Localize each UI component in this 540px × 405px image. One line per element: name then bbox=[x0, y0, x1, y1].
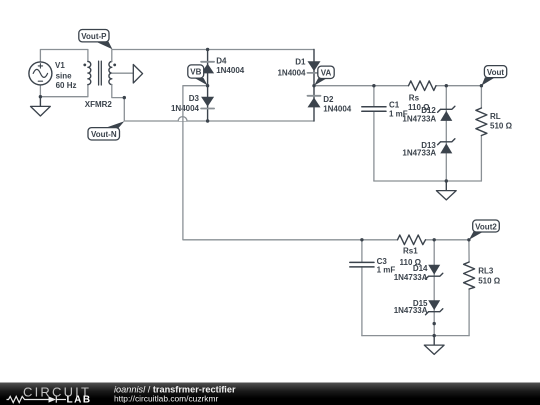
wire V1 bottom loop bbox=[40, 85, 88, 97]
svg-text:Rs1: Rs1 bbox=[403, 246, 418, 255]
tag Vout-N bbox=[88, 121, 124, 140]
node junction VA bbox=[312, 84, 315, 87]
label D2 / 1N4004 bbox=[323, 95, 352, 114]
node dot secondary bottom corner bbox=[123, 96, 126, 99]
label RL3 / 510 Ω bbox=[478, 266, 501, 285]
diode D3 1N4004 bbox=[201, 86, 214, 121]
diode D2 1N4004 bbox=[308, 86, 321, 121]
label D15 / 1N4733A bbox=[394, 299, 428, 315]
node junction Vout2 corner bbox=[467, 238, 470, 241]
transformer XFMR2 bbox=[83, 61, 116, 85]
node junction D12 top bbox=[445, 84, 448, 87]
node junction ground rail 1 bbox=[445, 179, 448, 182]
svg-text:RL3: RL3 bbox=[478, 266, 494, 275]
node junction V1-ground bbox=[39, 95, 42, 98]
label RL / 510 Ω bbox=[490, 112, 513, 131]
svg-text:1N4733A: 1N4733A bbox=[402, 149, 436, 158]
resistor RL3 bbox=[464, 240, 475, 336]
secondary dot bbox=[113, 64, 116, 67]
label Rs1 / 110 Ω bbox=[400, 246, 422, 267]
node junction VB bbox=[206, 84, 209, 87]
diode D1 1N4004 bbox=[308, 50, 321, 86]
label D3 / 1N4004 bbox=[171, 94, 200, 113]
svg-text:VB: VB bbox=[190, 68, 201, 77]
svg-text:1N4004: 1N4004 bbox=[323, 104, 352, 113]
svg-text:60 Hz: 60 Hz bbox=[56, 81, 77, 90]
svg-text:VA: VA bbox=[321, 69, 332, 78]
svg-text:1N4733A: 1N4733A bbox=[394, 273, 428, 282]
wire VA rail to Vout bbox=[314, 85, 481, 87]
svg-text:RL: RL bbox=[490, 112, 501, 121]
label D12 / 1N4733A bbox=[402, 106, 436, 123]
voltage source V1 bbox=[29, 62, 52, 85]
zener diode D12 1N4733A bbox=[438, 106, 455, 121]
primary dot bbox=[83, 64, 86, 67]
core bbox=[99, 61, 102, 85]
wire hop over VB vertical bbox=[178, 117, 187, 121]
svg-text:Vout-P: Vout-P bbox=[81, 32, 107, 41]
svg-text:Vout: Vout bbox=[487, 68, 505, 77]
svg-text:sine: sine bbox=[56, 71, 73, 80]
svg-text:D14: D14 bbox=[413, 264, 428, 273]
zener diode D13 1N4733A bbox=[438, 139, 455, 154]
zener diode D15 1N4733A bbox=[426, 300, 443, 314]
svg-text:1N4733A: 1N4733A bbox=[402, 114, 436, 123]
tag Vout-P bbox=[79, 30, 113, 50]
value label V1 sine 60 Hz bbox=[55, 61, 77, 90]
svg-text:1N4004: 1N4004 bbox=[216, 66, 245, 75]
svg-text:510 Ω: 510 Ω bbox=[478, 276, 501, 285]
capacitor C3 bbox=[350, 240, 374, 336]
svg-text:Vout-N: Vout-N bbox=[91, 130, 117, 139]
label Rs / 110 Ω bbox=[408, 93, 430, 112]
junction dots layer bbox=[39, 48, 483, 338]
wire bottom rail section2 bbox=[362, 335, 469, 337]
diode D4 1N4004 bbox=[201, 50, 214, 86]
label C3 / 1 mF bbox=[377, 257, 396, 274]
node junction ground rail 2 bbox=[433, 334, 436, 337]
wire zener2 chain bbox=[433, 240, 435, 336]
svg-text:D2: D2 bbox=[323, 95, 334, 104]
svg-text:D1: D1 bbox=[295, 58, 306, 67]
secondary winding bbox=[109, 62, 112, 85]
label D1 / 1N4004 bbox=[277, 58, 306, 78]
wire V1 top loop bbox=[40, 50, 88, 62]
wire VB to lower rail bbox=[183, 86, 362, 240]
svg-text:XFMR2: XFMR2 bbox=[85, 100, 113, 109]
tag Vout bbox=[482, 66, 507, 86]
node junction top rail D4 bbox=[206, 48, 209, 51]
label D13 / 1N4733A bbox=[402, 141, 436, 158]
ground GND1 bbox=[31, 97, 51, 116]
svg-text:1N4004: 1N4004 bbox=[277, 68, 306, 77]
wire zener chain bbox=[445, 86, 447, 181]
resistor RL bbox=[476, 86, 487, 181]
svg-text:D3: D3 bbox=[189, 94, 200, 103]
svg-text:Rs: Rs bbox=[409, 93, 420, 102]
resistor Rs bbox=[409, 81, 437, 91]
ground GND2 bbox=[436, 181, 456, 200]
tag Vout2 bbox=[469, 220, 499, 240]
wire bottom rail section1 bbox=[374, 180, 482, 182]
tag VB bbox=[188, 65, 208, 86]
node dot zener2 bottom bbox=[433, 322, 436, 325]
footer bar bbox=[0, 383, 540, 405]
ground GND3 bbox=[424, 336, 444, 355]
node junction D14 top bbox=[433, 238, 436, 241]
zener diode D14 1N4733A bbox=[426, 265, 443, 279]
node junction C3 top bbox=[360, 238, 363, 241]
svg-text:D4: D4 bbox=[216, 56, 227, 65]
capacitor C1 bbox=[362, 86, 386, 181]
wire secondary bottom bbox=[112, 85, 314, 121]
wire secondary top to bridge bbox=[112, 50, 314, 62]
svg-text:1 mF: 1 mF bbox=[377, 265, 396, 274]
svg-text:http://circuitlab.com/cuzrkmr: http://circuitlab.com/cuzrkmr bbox=[114, 394, 218, 404]
label D14 / 1N4733A bbox=[394, 264, 428, 282]
logo wire resistor diode glyph bbox=[7, 396, 67, 402]
tag VA bbox=[314, 66, 334, 86]
resistor Rs1 bbox=[398, 235, 426, 245]
primary winding bbox=[88, 62, 91, 85]
svg-text:1N4733A: 1N4733A bbox=[394, 306, 428, 315]
label C1 / 1 mF bbox=[389, 101, 408, 119]
svg-text:Vout2: Vout2 bbox=[475, 222, 497, 231]
secondary tap wire and arrow bbox=[112, 65, 143, 84]
label D4 / 1N4004 bbox=[216, 56, 245, 75]
svg-text:LAB: LAB bbox=[67, 394, 92, 405]
node junction Vout corner bbox=[480, 84, 483, 87]
svg-text:1N4004: 1N4004 bbox=[171, 104, 200, 113]
svg-text:V1: V1 bbox=[55, 61, 65, 70]
node junction C1 top bbox=[372, 84, 375, 87]
wire lower rail bbox=[362, 239, 469, 241]
svg-text:C1: C1 bbox=[389, 101, 400, 110]
node junction bottom rail D3 bbox=[206, 119, 209, 122]
svg-text:510 Ω: 510 Ω bbox=[490, 122, 513, 131]
